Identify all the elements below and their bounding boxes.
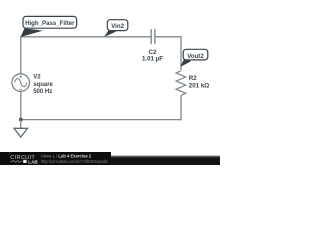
- svg-text:R2: R2: [189, 75, 197, 82]
- svg-text:500 Hz: 500 Hz: [33, 89, 52, 95]
- resistor R2 value label: [189, 75, 209, 90]
- svg-text:Vin2: Vin2: [111, 23, 124, 30]
- footer attribution bar: [0, 152, 220, 165]
- svg-text:Vout2: Vout2: [187, 53, 204, 60]
- ground: [14, 120, 28, 138]
- svg-text:High_Pass_Filter: High_Pass_Filter: [25, 20, 75, 27]
- footer full-width dark strip: [0, 155, 220, 158]
- wire right vertical lower: [180, 95, 182, 120]
- footer credit text: [41, 153, 108, 163]
- wire bottom horizontal: [21, 119, 182, 121]
- svg-text:201 kΩ: 201 kΩ: [189, 83, 209, 90]
- svg-text:1.01 µF: 1.01 µF: [142, 56, 163, 63]
- resistor R2: [176, 71, 186, 96]
- wire left vertical upper: [20, 36, 22, 74]
- footer CircuitLab logo: [10, 155, 38, 164]
- svg-text:square: square: [33, 82, 53, 88]
- voltage source V2 value label: [33, 74, 53, 95]
- svg-text:http://circuitlab.com/c/74f652: http://circuitlab.com/c/74f6523dyxd4: [41, 159, 108, 164]
- wire top horizontal left of capacitor: [21, 36, 151, 38]
- svg-text:Alana L / Lab 4 Exercise 2: Alana L / Lab 4 Exercise 2: [41, 153, 92, 158]
- junction dot ground node: [19, 118, 23, 122]
- node flag High_Pass_Filter: [21, 16, 77, 37]
- voltage source V2: [12, 74, 30, 92]
- svg-text:LAB: LAB: [28, 159, 38, 164]
- wire right vertical upper: [180, 36, 182, 70]
- node flag Vin2: [104, 20, 128, 37]
- svg-text:V2: V2: [33, 74, 41, 80]
- wire top horizontal right of capacitor: [155, 36, 182, 38]
- capacitor C2: [151, 29, 155, 44]
- footer left attribution plate: [0, 152, 111, 165]
- wire left vertical lower: [20, 91, 22, 119]
- node flag Vout2: [180, 49, 207, 66]
- capacitor C2 value label: [142, 49, 163, 63]
